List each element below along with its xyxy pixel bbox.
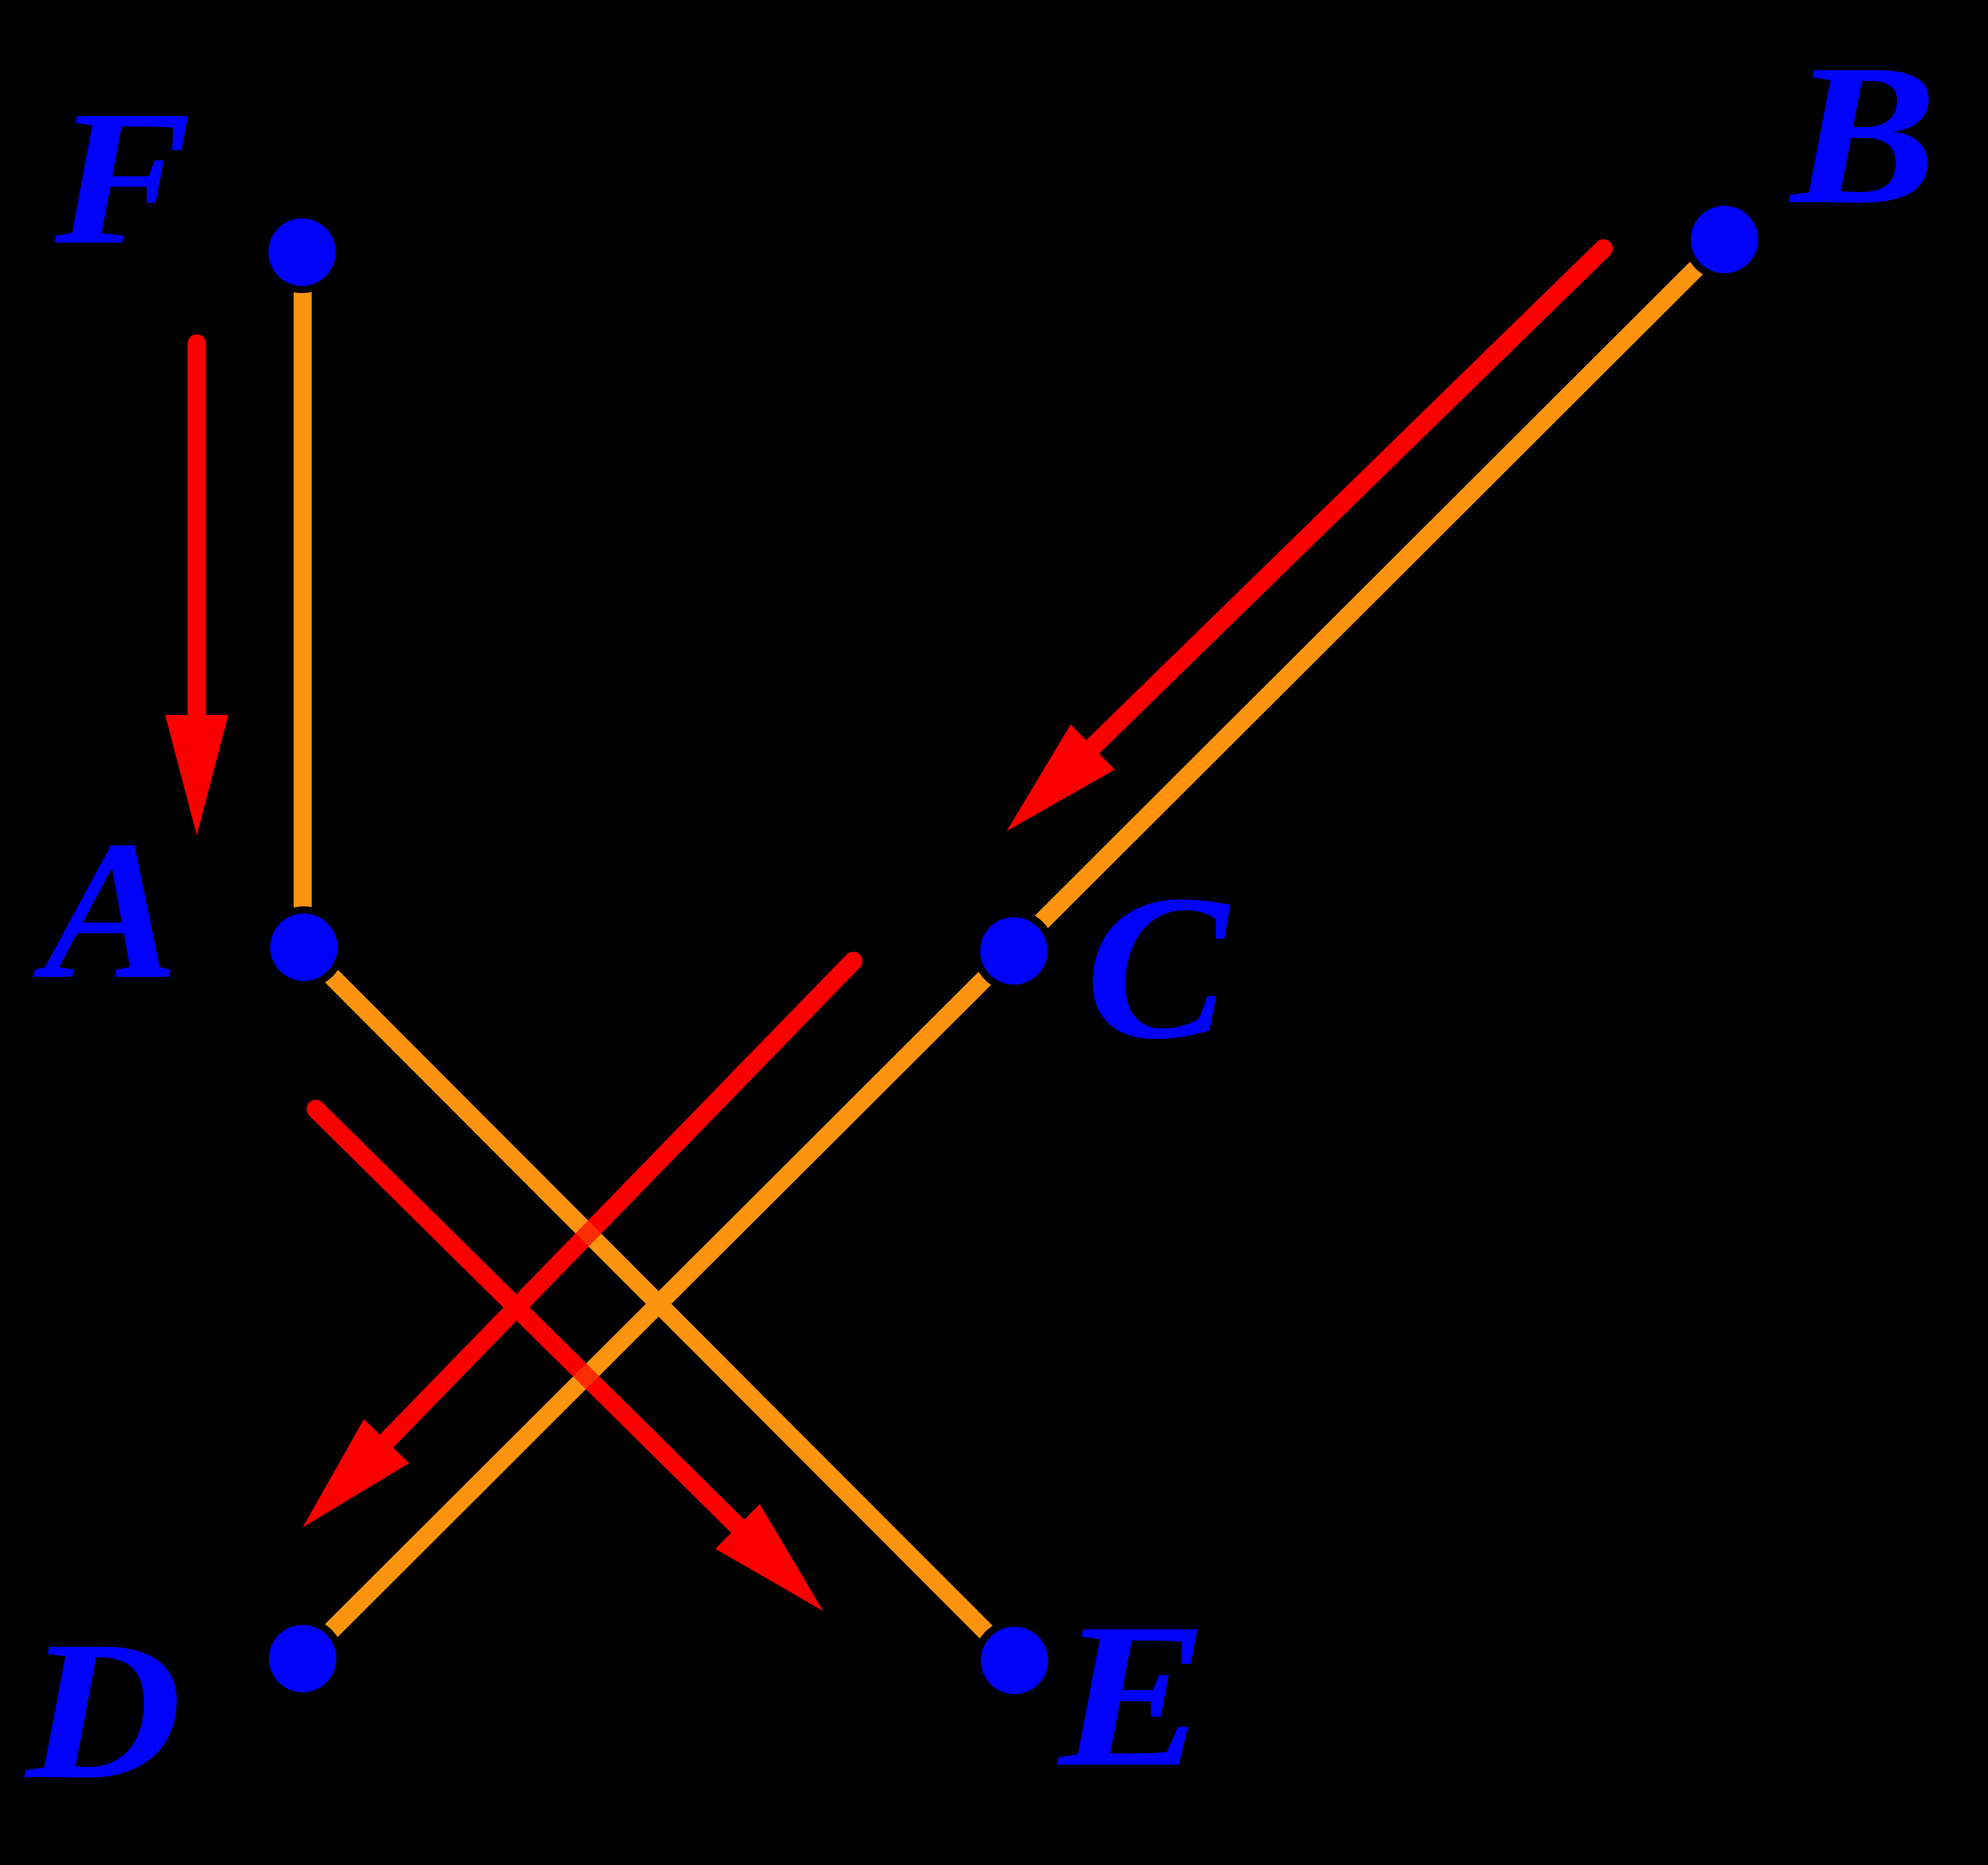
wire: orange segment A-E bbox=[303, 948, 1014, 1660]
node B bbox=[1687, 202, 1762, 277]
svg-text:D: D bbox=[22, 1600, 182, 1820]
red arrow B to C bbox=[1007, 249, 1604, 831]
red arrow F to A bbox=[165, 344, 229, 835]
node F bbox=[265, 215, 339, 289]
red arrow A to E bbox=[316, 1109, 823, 1611]
svg-text:E: E bbox=[1055, 1581, 1208, 1810]
svg-text:F: F bbox=[52, 71, 191, 285]
node A bbox=[267, 910, 341, 985]
wire overlay: translucent orange over red crossings (B-D) bbox=[303, 240, 1724, 1659]
wire overlay: translucent orange over red crossings (A-E) bbox=[303, 948, 1014, 1660]
wire: orange segment B-D through C bbox=[303, 240, 1724, 1659]
node E bbox=[977, 1623, 1052, 1698]
svg-text:B: B bbox=[1787, 23, 1937, 246]
svg-text:C: C bbox=[1085, 852, 1232, 1082]
svg-text:A: A bbox=[31, 799, 179, 1020]
red arrow C to D bbox=[303, 961, 853, 1527]
node C bbox=[977, 914, 1051, 988]
wire: orange segment F-A bbox=[294, 252, 312, 948]
node D bbox=[265, 1621, 340, 1696]
